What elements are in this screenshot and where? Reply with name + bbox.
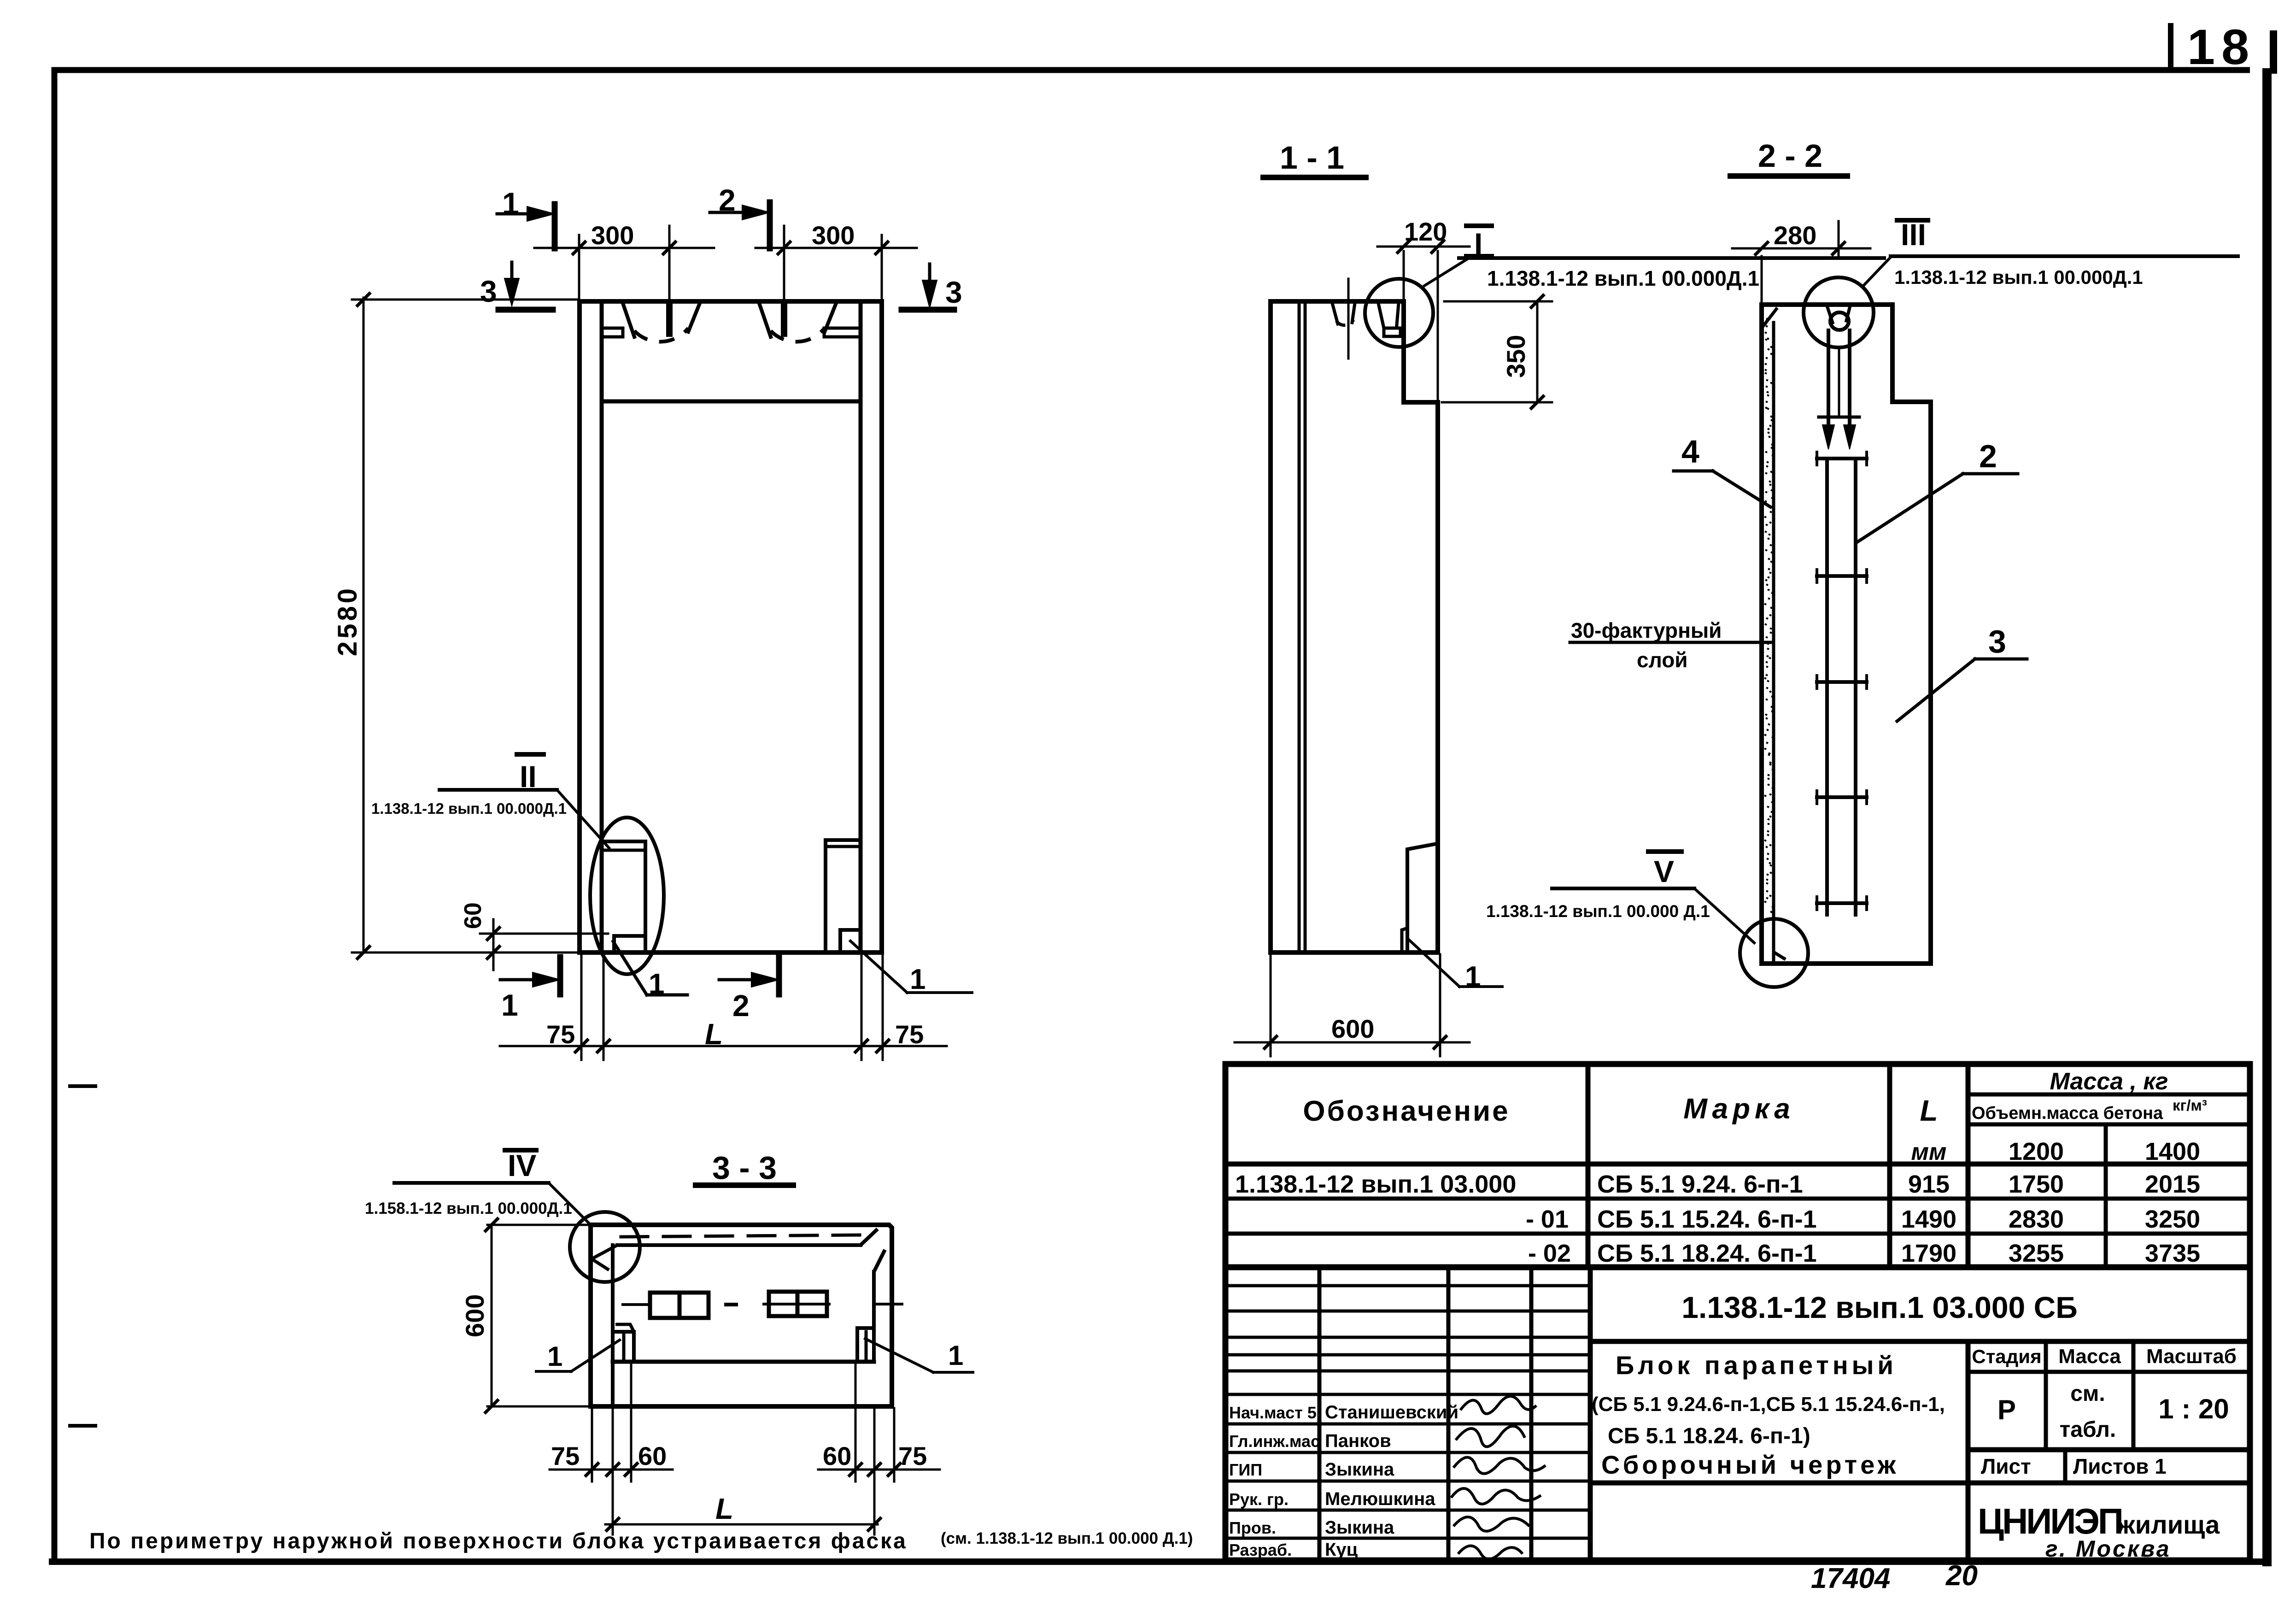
svg-text:кг/м³: кг/м³ — [2173, 1097, 2207, 1114]
svg-text:Нач.маст 5: Нач.маст 5 — [1229, 1403, 1317, 1422]
section 2-2 reinforcement ladder — [1817, 452, 1867, 915]
svg-text:L: L — [705, 1017, 723, 1051]
svg-text:1: 1 — [649, 968, 664, 1000]
table row 3 — [1528, 1240, 2200, 1267]
leader 1 section 1-1 corbel — [1409, 940, 1502, 993]
detail V circle callout — [1740, 919, 1808, 987]
dimension 350 section 1-1 — [1442, 295, 1552, 408]
svg-text:1400: 1400 — [2145, 1138, 2200, 1165]
front view: left lifting loop groove — [623, 303, 700, 342]
svg-text:1750: 1750 — [2009, 1170, 2064, 1198]
svg-text:1.158.1-12 вып.1 00.000Д.1: 1.158.1-12 вып.1 00.000Д.1 — [365, 1199, 572, 1217]
section 3-3 inner top edge — [592, 1229, 878, 1270]
svg-text:1: 1 — [501, 988, 518, 1022]
title block frame — [1225, 1267, 2250, 1560]
leader 1 right corbel front view — [850, 941, 972, 995]
list listov row — [1981, 1454, 2167, 1478]
svg-text:- 01: - 01 — [1526, 1205, 1569, 1233]
svg-text:Объемн.масса бетона: Объемн.масса бетона — [1972, 1104, 2163, 1123]
front view: top flange bottom edge — [602, 400, 861, 404]
section 3-3 right anchor plate — [769, 1292, 827, 1316]
title block name texts — [1592, 1351, 1945, 1479]
svg-text:Листов 1: Листов 1 — [2073, 1454, 2167, 1478]
svg-text:300: 300 — [812, 221, 855, 250]
section 3-3 hidden dashed line — [621, 1235, 862, 1237]
detail III circle callout — [1804, 277, 1874, 347]
svg-text:Разраб.: Разраб. — [1229, 1540, 1292, 1559]
section mark 3 left — [480, 262, 553, 310]
section 2-2 outline — [1762, 305, 1931, 964]
svg-text:Станишевский: Станишевский — [1325, 1402, 1458, 1423]
section 3-3 left rib inner line — [611, 1245, 615, 1406]
svg-text:Сборочный чертеж: Сборочный чертеж — [1601, 1450, 1899, 1479]
svg-text:30-фактурный: 30-фактурный — [1571, 618, 1722, 642]
svg-text:2015: 2015 — [2145, 1170, 2200, 1198]
svg-text:мм: мм — [1911, 1139, 1947, 1165]
section 3-3 right rib inner line and chamfer — [874, 1250, 885, 1362]
svg-text:L: L — [715, 1492, 733, 1525]
front view: outer outline — [580, 301, 882, 952]
svg-text:2580: 2580 — [333, 586, 363, 656]
svg-text:60: 60 — [460, 902, 486, 929]
svg-text:600: 600 — [460, 1294, 489, 1337]
section mark 3 right — [902, 264, 962, 310]
svg-text:300: 300 — [591, 221, 634, 250]
svg-text:1: 1 — [1465, 961, 1481, 993]
svg-text:60: 60 — [823, 1441, 851, 1470]
section 1-1 bottom corbel — [1402, 843, 1439, 952]
svg-text:75: 75 — [898, 1441, 927, 1470]
leader 1 section 3-3 left corbel — [536, 1340, 620, 1372]
svg-text:60: 60 — [638, 1441, 667, 1470]
svg-text:III: III — [1901, 218, 1926, 252]
svg-text:Блок парапетный: Блок парапетный — [1616, 1351, 1897, 1380]
svg-text:СБ 5.1 15.24. 6-п-1: СБ 5.1 15.24. 6-п-1 — [1597, 1205, 1817, 1233]
svg-text:1.138.1-12 вып.1 03.000: 1.138.1-12 вып.1 03.000 — [1235, 1170, 1516, 1198]
front view: left top slot step — [602, 328, 623, 337]
svg-text:Панков: Панков — [1325, 1431, 1391, 1451]
svg-text:2830: 2830 — [2009, 1205, 2064, 1233]
front view: right top slot step — [824, 328, 861, 337]
svg-text:3: 3 — [1988, 623, 2006, 659]
svg-text:1: 1 — [547, 1341, 562, 1372]
section mark 1 bottom — [500, 957, 560, 1022]
30-фактурный слой note — [1570, 618, 1772, 672]
stadia massa masshtab header — [1972, 1345, 2237, 1442]
section 2-2 facade layer top chamfer — [1762, 308, 1777, 328]
svg-text:1.138.1-12 вып.1 00.000Д.1: 1.138.1-12 вып.1 00.000Д.1 — [1894, 266, 2143, 288]
svg-text:2 - 2: 2 - 2 — [1758, 138, 1822, 174]
dimension 2580 overall height — [333, 294, 577, 958]
dimension 75 L 75 bottom — [500, 954, 947, 1060]
svg-text:2: 2 — [1979, 438, 1997, 474]
section mark 1 top — [497, 186, 555, 248]
svg-text:915: 915 — [1908, 1170, 1950, 1198]
personnel rows labels — [1229, 1402, 1458, 1560]
detail II oval callout around left corbel — [590, 817, 664, 974]
svg-text:3250: 3250 — [2145, 1205, 2200, 1233]
dimension 60 corbel — [460, 902, 608, 970]
section 2-2 lifting loop top — [1827, 306, 1850, 423]
table header texts — [1303, 1068, 2207, 1165]
section 1-1 facade layer lines — [1299, 301, 1305, 952]
handwritten numbers below title block — [1811, 1560, 1978, 1594]
svg-text:V: V — [1654, 854, 1674, 888]
section 2-2 title — [1730, 138, 1847, 176]
section 2-2 bottom left chamfer detail V — [1774, 945, 1786, 959]
front view: right lifting loop groove — [759, 303, 836, 342]
svg-text:Обозначение: Обозначение — [1303, 1095, 1510, 1127]
svg-text:Масса: Масса — [2058, 1345, 2121, 1368]
section 1-1 top right corner groove (detail I) — [1378, 303, 1400, 336]
svg-text:3: 3 — [480, 274, 497, 308]
svg-text:Лист: Лист — [1981, 1454, 2031, 1478]
svg-text:1490: 1490 — [1901, 1205, 1956, 1233]
dimension L section 3-3 — [605, 1484, 880, 1535]
svg-text:- 02: - 02 — [1528, 1240, 1571, 1267]
section 1-1 top groove with loop — [1332, 279, 1355, 359]
svg-text:По периметру наружной поверх: По периметру наружной поверхности блока … — [89, 1529, 908, 1553]
svg-text:СБ 5.1 18.24. 6-п-1): СБ 5.1 18.24. 6-п-1) — [1608, 1424, 1810, 1448]
svg-text:1.138.1-12 вып.1 00.000Д.1: 1.138.1-12 вып.1 00.000Д.1 — [1487, 266, 1759, 290]
detail V label and reference — [1486, 852, 1754, 943]
svg-text:1790: 1790 — [1901, 1240, 1956, 1267]
svg-text:18: 18 — [2187, 19, 2255, 75]
detail I label and reference — [1424, 226, 1884, 290]
section 3-3 left anchor plate — [650, 1293, 709, 1318]
label 3 leader concrete body — [1897, 623, 2027, 721]
specification table frame — [1225, 1064, 2250, 1267]
svg-text:17404: 17404 — [1811, 1563, 1890, 1594]
svg-text:3 - 3: 3 - 3 — [712, 1150, 777, 1186]
svg-text:1.138.1-12 вып.1 00.000 Д.1: 1.138.1-12 вып.1 00.000 Д.1 — [1486, 902, 1710, 921]
svg-text:Зыкина: Зыкина — [1325, 1517, 1394, 1538]
section mark 2 top — [710, 183, 770, 248]
svg-text:280: 280 — [1774, 221, 1816, 250]
TsNIIEP zhilishcha logo — [1978, 1501, 2220, 1562]
svg-text:3255: 3255 — [2009, 1240, 2064, 1267]
svg-text:600: 600 — [1331, 1014, 1374, 1043]
svg-text:3: 3 — [945, 275, 962, 309]
detail IV label and reference — [365, 1148, 590, 1224]
front view: right bottom corbel — [826, 840, 861, 952]
section 3-3 left corbel — [613, 1324, 634, 1362]
table row 2 — [1526, 1205, 2200, 1233]
svg-text:L: L — [1920, 1094, 1938, 1127]
detail I circle callout — [1365, 279, 1433, 347]
signatures squiggles — [1451, 1396, 1546, 1559]
svg-text:1.138.1-12 вып.1 03.000 СБ: 1.138.1-12 вып.1 03.000 СБ — [1681, 1290, 2077, 1324]
svg-text:Пров.: Пров. — [1229, 1518, 1276, 1537]
section 3-3 inner bottom edge — [613, 1360, 874, 1364]
svg-text:1 : 20: 1 : 20 — [2158, 1393, 2229, 1424]
svg-text:Куц: Куц — [1325, 1540, 1358, 1560]
svg-text:350: 350 — [1501, 335, 1530, 378]
leader 1 left corbel — [613, 941, 687, 1000]
section 3-3 title — [696, 1150, 793, 1186]
fold mark left border upper — [70, 1084, 95, 1088]
sheet number 18 top right — [2171, 19, 2273, 75]
dimension 300 top left — [534, 221, 714, 300]
svg-text:Гл.инж.мас: Гл.инж.мас — [1229, 1432, 1320, 1451]
svg-text:ГИП: ГИП — [1229, 1460, 1262, 1479]
section 2-2 facade layer stipple — [1764, 318, 1774, 912]
svg-text:см.: см. — [2070, 1382, 2105, 1406]
svg-text:(СБ 5.1 9.24.6-п-1,СБ 5.1 15.2: (СБ 5.1 9.24.6-п-1,СБ 5.1 15.24.6-п-1, — [1592, 1393, 1945, 1416]
svg-text:Зыкина: Зыкина — [1325, 1459, 1394, 1480]
svg-text:4: 4 — [1681, 434, 1699, 470]
dimensions 75 60 60 75 section 3-3 — [550, 1364, 940, 1482]
svg-text:СБ 5.1 18.24. 6-п-1: СБ 5.1 18.24. 6-п-1 — [1597, 1240, 1817, 1267]
svg-text:1: 1 — [948, 1340, 963, 1371]
leader 1 section 3-3 right corbel — [865, 1339, 973, 1372]
svg-text:слой: слой — [1637, 648, 1688, 672]
svg-text:Мелюшкина: Мелюшкина — [1325, 1489, 1435, 1509]
dimension 280 section 2-2 — [1732, 221, 1870, 302]
svg-text:Стадия: Стадия — [1972, 1346, 2041, 1367]
svg-text:Р: Р — [1997, 1394, 2016, 1425]
detail III label and reference — [1863, 218, 2238, 288]
svg-text:(см. 1.138.1-12 вып.1 00.000 Д: (см. 1.138.1-12 вып.1 00.000 Д.1) — [941, 1529, 1193, 1547]
section 1-1 outline — [1271, 301, 1438, 952]
svg-text:75: 75 — [546, 1020, 575, 1049]
front view: left bottom corbel — [602, 841, 645, 952]
svg-text:жилища: жилища — [2116, 1510, 2220, 1539]
label 2 leader reinforcement — [1857, 438, 2018, 542]
svg-text:75: 75 — [895, 1020, 924, 1049]
dimension 300 top right — [756, 221, 917, 300]
section 3-3 outline channel — [591, 1225, 892, 1406]
svg-text:75: 75 — [551, 1441, 580, 1470]
svg-text:1200: 1200 — [2009, 1138, 2064, 1165]
dimension 120 section 1-1 — [1377, 217, 1470, 400]
svg-text:г. Москва: г. Москва — [2045, 1536, 2171, 1562]
svg-text:Масштаб: Масштаб — [2146, 1345, 2237, 1368]
fold mark left border — [70, 1424, 95, 1428]
svg-text:120: 120 — [1404, 217, 1447, 246]
svg-text:1.138.1-12 вып.1 00.000Д.1: 1.138.1-12 вып.1 00.000Д.1 — [371, 800, 567, 817]
front view: left rib inner edge — [600, 301, 604, 952]
section mark 2 bottom — [719, 957, 779, 1023]
detail II label and reference text — [371, 754, 609, 848]
svg-text:20: 20 — [1945, 1560, 1978, 1592]
svg-text:Масса , кг: Масса , кг — [2050, 1068, 2168, 1095]
detail IV circle callout — [570, 1212, 640, 1282]
svg-text:1 - 1: 1 - 1 — [1280, 140, 1344, 176]
section 1-1 title — [1263, 140, 1366, 177]
svg-text:3735: 3735 — [2145, 1240, 2200, 1267]
section 3-3 right corbel — [857, 1328, 874, 1362]
svg-text:Рук. гр.: Рук. гр. — [1229, 1490, 1289, 1509]
svg-text:IV: IV — [508, 1148, 536, 1182]
front view: right rib inner edge — [859, 301, 863, 952]
section 2-2 loop hook ends — [1819, 417, 1859, 449]
dimension 600 section 3-3 — [460, 1219, 589, 1412]
dimension 600 section 1-1 — [1235, 954, 1470, 1056]
svg-text:1: 1 — [910, 964, 925, 995]
section 2-2 facade layer inner line — [1772, 323, 1775, 961]
table row 1 — [1235, 1170, 2200, 1198]
label 4 leader facade layer — [1674, 434, 1770, 507]
section 3-3 anchor centerline — [623, 1304, 902, 1305]
svg-text:2: 2 — [732, 988, 750, 1023]
svg-text:ЦНИИЭП: ЦНИИЭП — [1978, 1501, 2122, 1541]
svg-text:СБ 5.1 9.24. 6-п-1: СБ 5.1 9.24. 6-п-1 — [1597, 1170, 1803, 1198]
svg-text:Марка: Марка — [1683, 1093, 1794, 1125]
svg-text:табл.: табл. — [2060, 1417, 2116, 1442]
